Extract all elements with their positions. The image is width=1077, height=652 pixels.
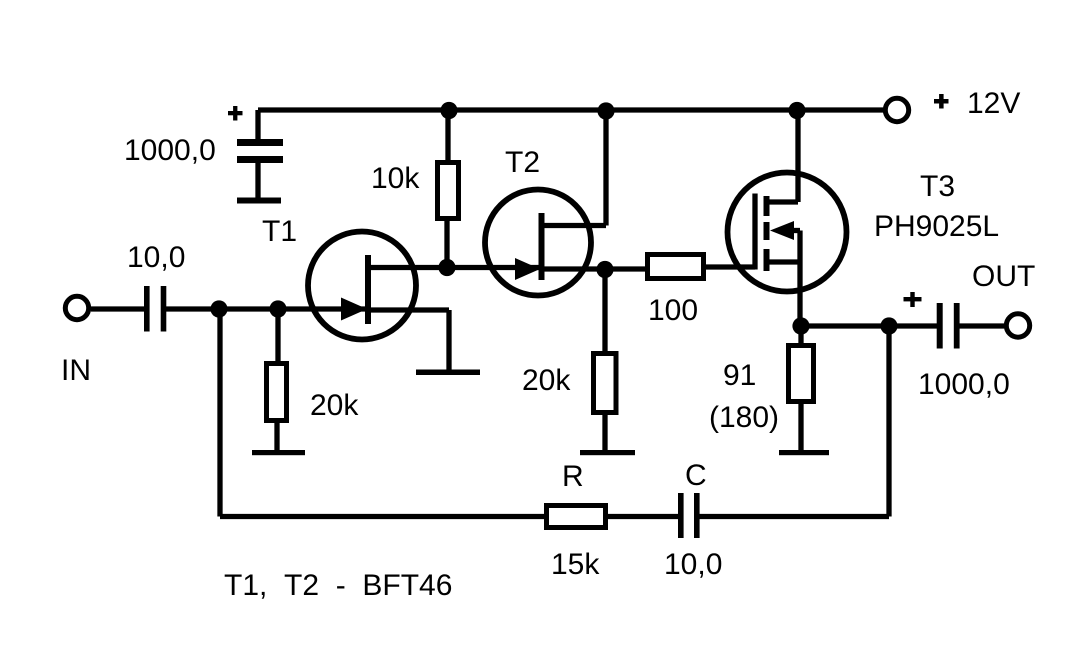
svg-text:100: 100 [648, 294, 698, 327]
svg-text:1000,0: 1000,0 [918, 368, 1010, 401]
svg-text:15k: 15k [551, 548, 600, 581]
svg-text:T2: T2 [505, 146, 540, 179]
svg-text:T1, T2 - BFT46: T1, T2 - BFT46 [224, 569, 452, 602]
svg-text:R: R [562, 460, 584, 493]
svg-text:20k: 20k [310, 389, 359, 422]
svg-text:OUT: OUT [972, 260, 1035, 293]
svg-text:10k: 10k [371, 162, 420, 195]
svg-text:PH9025L: PH9025L [874, 210, 999, 243]
svg-text:T3: T3 [920, 170, 955, 203]
svg-text:C: C [685, 459, 707, 492]
svg-text:T1: T1 [262, 215, 297, 248]
svg-text:10,0: 10,0 [664, 548, 722, 581]
svg-text:12V: 12V [967, 87, 1020, 120]
svg-text:20k: 20k [522, 364, 571, 397]
svg-text:IN: IN [61, 354, 91, 387]
svg-text:10,0: 10,0 [127, 241, 185, 274]
svg-text:(180): (180) [709, 401, 779, 434]
svg-text:91: 91 [723, 359, 756, 392]
svg-text:1000,0: 1000,0 [124, 134, 216, 167]
